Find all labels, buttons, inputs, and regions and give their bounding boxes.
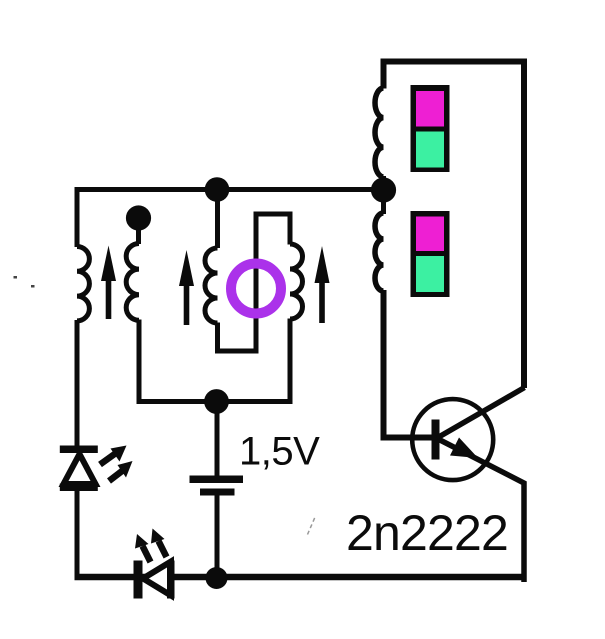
svg-text:1,5V: 1,5V <box>239 430 320 474</box>
indicator rectangles pair 2 (magenta/green) <box>411 211 450 297</box>
wire: battery top lead <box>215 404 220 478</box>
svg-text:2n2222: 2n2222 <box>346 505 508 561</box>
wire: L6 bottom lead and base lead of Q1 <box>384 290 433 438</box>
node: open terminal dot of L2 <box>126 205 151 230</box>
wire: L3 bottom bracket, toroid center line, top bracket to L4 <box>218 214 291 351</box>
LED D2 light arrows <box>135 529 167 563</box>
coupling arrow right of toroid <box>315 246 330 323</box>
inductor L2 (secondary, bumps left) <box>126 244 139 321</box>
transistor Q1 base bar <box>432 420 440 460</box>
node: junction dot on top rail <box>205 177 230 202</box>
faint specks <box>14 276 35 288</box>
coupling arrow of transformer T1 <box>101 246 116 320</box>
node: junction dot between L5 and L6 <box>371 177 396 202</box>
wire: L3 top lead from junction <box>215 192 220 248</box>
inductor L1 (primary, bumps right) <box>77 247 89 321</box>
indicator rectangles pair 1 (magenta/green) <box>411 85 450 172</box>
transistor Q1 circle <box>412 399 493 480</box>
wire: left branch below L1 down to LED D1 <box>75 320 80 446</box>
label: 1,5V <box>239 430 320 474</box>
inductor L5 (upper right winding, bumps left) <box>375 88 384 177</box>
wire: L5/L6 link through junction <box>381 176 386 214</box>
wire: battery bottom lead <box>215 493 220 577</box>
wire: L2 top stub under terminal dot <box>136 218 141 244</box>
transistor Q1 collector line <box>437 388 525 439</box>
battery B1 plates <box>190 476 244 496</box>
transistor Q1 emitter line with arrow <box>439 438 524 583</box>
inductor L3 (toroid left winding, bumps left) <box>205 248 218 323</box>
wire: LED D1 lower lead <box>75 490 80 577</box>
node: junction dot middle rail (battery +) <box>204 389 229 414</box>
node: junction dot bottom rail (battery -) <box>206 567 228 589</box>
coupling arrow left of toroid <box>179 250 194 325</box>
LED D1 (vertical, cathode up) <box>60 446 98 492</box>
wire: L2 bottom lead, middle rail, riser to L4 <box>139 319 290 402</box>
label: 2n2222 <box>346 505 508 561</box>
faint pencil slash mark <box>308 516 316 535</box>
LED D1 light arrows <box>100 446 133 482</box>
toroid core (purple ring) <box>231 264 281 314</box>
wire: top rail with left drop to L1 <box>77 190 384 248</box>
inductor L4 (toroid right winding, bumps right) <box>290 244 303 319</box>
wire: L5 top corner, top-right rail, right vertical to collector <box>384 62 525 389</box>
inductor L6 (lower right winding, bumps left) <box>375 213 383 291</box>
wire: bottom rail <box>75 574 527 581</box>
LED D2 (horizontal, cathode left) <box>134 561 175 599</box>
